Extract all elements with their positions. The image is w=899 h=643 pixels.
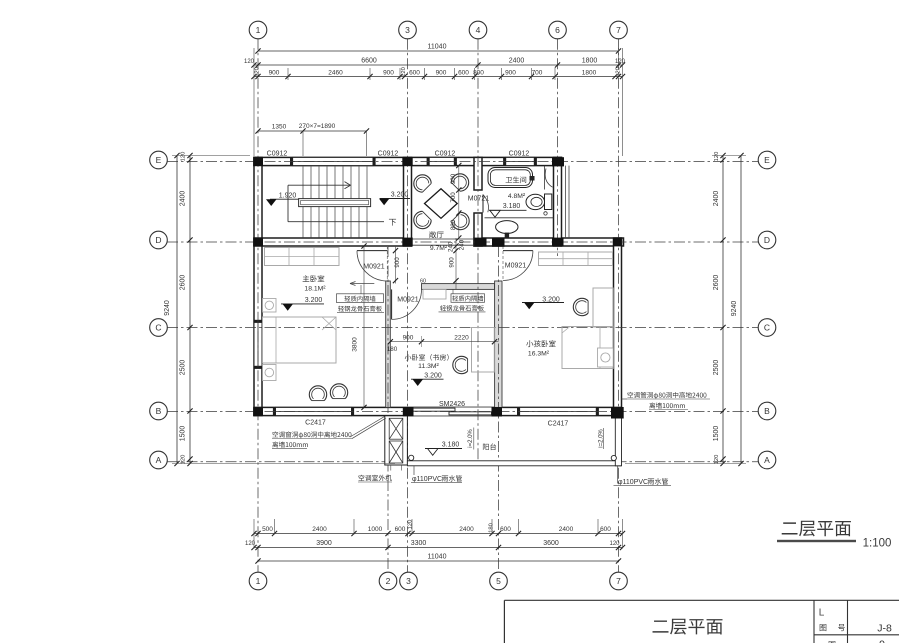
grid line A (horizontal) (167, 461, 759, 463)
svg-text:120: 120 (615, 59, 626, 65)
grid line 2 (vertical) (387, 246, 389, 572)
label balcony 阳台 (483, 443, 496, 450)
rain pipe left (409, 455, 414, 460)
svg-text:16.3M²: 16.3M² (528, 351, 550, 358)
svg-text:900: 900 (403, 334, 414, 341)
svg-text:2600: 2600 (180, 275, 187, 291)
grid circle 7 bottom (610, 572, 628, 590)
grid circle B right (758, 402, 776, 420)
svg-text:A: A (156, 455, 162, 465)
side table children bedroom (598, 348, 614, 367)
dining table (425, 189, 458, 219)
svg-text:E: E (764, 155, 770, 165)
annotation AC hole left 空调窗洞 (273, 431, 352, 438)
column grid1/rowE (253, 157, 263, 166)
svg-text:240: 240 (448, 241, 455, 252)
chair 2 master bedroom (330, 384, 347, 399)
annotation AC hole right 空调管洞 (628, 392, 707, 399)
title block partial second row (829, 641, 836, 643)
window: stair strip window (top wall) (293, 157, 373, 165)
svg-text:500: 500 (262, 526, 273, 533)
dimension extension lines right (712, 155, 746, 157)
column grid5/rowB (492, 407, 503, 417)
grid circle 7 top (610, 21, 628, 39)
bathroom floor divider (485, 217, 554, 219)
svg-text:2500: 2500 (180, 360, 187, 376)
annotation AC outdoor unit 空调室外机 (359, 475, 392, 481)
svg-text:180: 180 (489, 523, 495, 533)
svg-text:1000: 1000 (368, 526, 383, 533)
column grid7/rowB (611, 407, 624, 419)
stair handrail (299, 199, 371, 207)
grid line E (horizontal) (167, 161, 759, 163)
grid line D (horizontal) (167, 241, 759, 243)
svg-text:2400: 2400 (509, 58, 525, 65)
wall: exterior bottom (row B) (254, 407, 622, 415)
svg-text:18.1M²: 18.1M² (304, 286, 326, 293)
svg-text:M0921: M0921 (397, 297, 419, 304)
shelf small bedroom (423, 290, 446, 300)
grid circle E right (758, 151, 776, 169)
window C2417 master (row B) (276, 407, 352, 415)
grid line C (horizontal) (167, 327, 759, 329)
dimension extension lines bottom (253, 519, 255, 549)
nightstand 1 master (263, 299, 277, 313)
stair treads (303, 166, 367, 238)
column grid1/rowD (253, 238, 263, 247)
svg-text:J-8: J-8 (877, 623, 892, 635)
svg-text:11.3M²: 11.3M² (418, 363, 439, 370)
toilet (526, 194, 545, 209)
dimension top row 2 (254, 64, 623, 66)
svg-text:2500: 2500 (713, 360, 720, 376)
bed children bedroom (562, 327, 613, 369)
svg-text:L: L (819, 608, 825, 619)
wall: grid6 bathroom right wall (554, 157, 562, 246)
column grid6/rowE (552, 157, 564, 166)
svg-text:3300: 3300 (411, 540, 427, 547)
grid line 6 (vertical) (557, 39, 559, 256)
grid circle D left (150, 231, 168, 249)
column grid7/rowD (613, 238, 622, 247)
svg-text:600: 600 (500, 526, 511, 533)
svg-text:i=2.0%: i=2.0% (468, 429, 474, 448)
dining chair NE (450, 170, 473, 193)
svg-text:240: 240 (459, 239, 466, 250)
svg-text:A: A (764, 455, 770, 465)
svg-text:800: 800 (450, 219, 457, 230)
dimension small bedroom top (900/2220) (390, 341, 498, 343)
svg-text:2400: 2400 (559, 526, 574, 533)
column grid3/rowD (402, 238, 412, 247)
svg-text:900: 900 (505, 70, 516, 77)
column grid5/rowD (492, 238, 505, 247)
dimension extension lines left (172, 155, 250, 157)
svg-text:9240: 9240 (731, 301, 738, 317)
svg-text:C2417: C2417 (548, 421, 569, 428)
svg-text:φ110PVC: φ110PVC (618, 479, 648, 486)
window C0912 bathroom (top wall) (506, 157, 535, 165)
dimension stair treads (1350, 270x7=1890) (258, 130, 367, 132)
svg-text:900: 900 (269, 70, 280, 77)
chair children bedroom (573, 298, 588, 315)
svg-text:120: 120 (714, 455, 720, 465)
wall: row D right segment (grid4-grid7) (474, 238, 624, 246)
svg-text:7: 7 (616, 25, 621, 35)
window C0912 dining (top wall) (429, 157, 454, 165)
label children bedroom 小孩卧室 16.3M2 (526, 340, 555, 347)
svg-text:1800: 1800 (582, 70, 597, 77)
svg-text:120: 120 (244, 59, 255, 65)
floor drain (544, 212, 547, 215)
grid circle 4 top (469, 21, 487, 39)
dimension left outer (9240) (176, 156, 178, 464)
grid circle 2 bottom (379, 572, 397, 590)
stair direction arrow (up) (288, 184, 351, 186)
svg-text:C0912: C0912 (267, 151, 288, 158)
annotation partition master (boxed) (337, 294, 384, 303)
grid circle 5 bottom (490, 572, 508, 590)
grid circle C left (150, 319, 168, 337)
svg-text:1:100: 1:100 (863, 538, 892, 550)
dimension bottom row 1 (254, 533, 623, 535)
grid circle 3 bottom (400, 572, 418, 590)
grid circle D right (758, 231, 776, 249)
svg-text:D: D (155, 235, 161, 245)
svg-text:5: 5 (496, 576, 501, 586)
svg-text:C2417: C2417 (305, 420, 326, 427)
svg-text:2400: 2400 (312, 526, 327, 533)
label dining 敞厅 9.7M2 (429, 231, 443, 238)
partition: master bedroom east wall (grid2) (386, 281, 391, 407)
svg-text:11040: 11040 (428, 554, 447, 561)
AC shaft box with X bracing (385, 416, 408, 465)
svg-text:3.180: 3.180 (442, 442, 460, 449)
window C2417 children (row B) (520, 407, 597, 415)
title block cell 图 号 (820, 624, 827, 631)
svg-text:1800: 1800 (582, 58, 598, 65)
svg-text:φ110PVC: φ110PVC (412, 476, 442, 483)
partition: corridor south wall (422, 284, 495, 290)
column grid3/rowB (403, 407, 414, 416)
svg-text:C: C (155, 323, 161, 333)
svg-text:3.200: 3.200 (305, 297, 323, 304)
wall: row D left segment (grid1-grid3) (254, 238, 412, 246)
balcony parapet right (615, 416, 621, 466)
title block text 二层平面 (653, 619, 723, 635)
dimension right inner (722, 156, 724, 464)
svg-text:3: 3 (405, 25, 410, 35)
svg-text:600: 600 (409, 70, 420, 77)
grid circle B left (150, 402, 168, 420)
wall: grid3 stair/dining wall (404, 157, 412, 246)
svg-text:900: 900 (450, 173, 457, 184)
svg-text:3.200: 3.200 (424, 373, 442, 380)
svg-text:180: 180 (387, 346, 398, 353)
dimension 240 near grid4 (459, 239, 466, 250)
svg-text:60: 60 (420, 279, 426, 285)
dimension master 3800 vertical (363, 246, 365, 407)
wash basin (496, 221, 518, 234)
svg-text:700: 700 (532, 70, 543, 77)
title block frame (504, 599, 899, 601)
door M0921 children bedroom (503, 250, 533, 252)
dining chair NW (410, 171, 433, 194)
drawing title 二层平面 (782, 521, 851, 537)
door M0721 bathroom (482, 195, 484, 213)
nightstand 2 master (263, 365, 277, 381)
svg-text:7: 7 (616, 576, 621, 586)
svg-text:B: B (156, 406, 162, 416)
desk small bedroom (472, 328, 495, 373)
annotation partition corridor (boxed) (451, 294, 485, 303)
svg-text:M0721: M0721 (468, 196, 490, 203)
balcony parapet bottom (407, 461, 621, 466)
dimension left inner (189, 156, 191, 464)
label bathroom 卫生间 4.8M2 (506, 176, 527, 183)
chair 1 master bedroom (309, 386, 326, 401)
svg-text:900: 900 (436, 70, 447, 77)
dimension corridor left (900) (395, 246, 397, 284)
svg-text:120: 120 (401, 67, 407, 77)
floor edge line at dining (row D open side) (412, 238, 475, 240)
svg-text:3.200: 3.200 (391, 192, 409, 199)
svg-text:C: C (764, 323, 770, 333)
svg-text:1500: 1500 (713, 426, 720, 442)
rain pipe right (611, 455, 616, 460)
svg-text:2600: 2600 (713, 275, 720, 291)
dimension top row 3 (254, 76, 623, 78)
dimension bottom row 2 (254, 547, 623, 549)
bathtub (488, 168, 533, 188)
svg-text:9.7M²: 9.7M² (430, 245, 448, 252)
svg-text:120: 120 (408, 520, 414, 530)
svg-text:600: 600 (395, 526, 406, 533)
dimension corridor right (240/900) (455, 238, 457, 289)
dimension bottom row 3 (11040) (258, 560, 619, 562)
svg-text:3800: 3800 (352, 337, 359, 352)
grid line 4 (vertical) (477, 39, 479, 462)
svg-text:11040: 11040 (428, 44, 447, 51)
svg-text:120: 120 (255, 67, 261, 77)
svg-text:2220: 2220 (454, 334, 469, 341)
svg-text:1: 1 (256, 576, 261, 586)
svg-text:700: 700 (450, 192, 457, 203)
svg-text:120: 120 (181, 455, 187, 465)
wardrobe children bedroom (539, 252, 613, 266)
column grid4/rowD (475, 238, 487, 247)
svg-text:3.180: 3.180 (503, 203, 521, 210)
svg-text:3900: 3900 (316, 540, 332, 547)
svg-text:9240: 9240 (164, 300, 171, 316)
svg-text:9: 9 (879, 639, 885, 643)
partition: children room west wall (grid5) (495, 281, 502, 407)
svg-text:2460: 2460 (328, 70, 343, 77)
svg-text:4.8M²: 4.8M² (508, 193, 526, 200)
shower corner screen (544, 166, 546, 190)
grid circle E left (150, 151, 168, 169)
stair direction line (down) (287, 185, 289, 222)
chair small bedroom (453, 356, 468, 373)
svg-text:120: 120 (181, 152, 187, 162)
dining chair SW (410, 210, 433, 233)
svg-text:M0921: M0921 (363, 264, 385, 271)
wall: exterior top (row E) (254, 157, 562, 165)
grid circle A left (150, 451, 168, 469)
balcony slope label i=2.0% right (599, 429, 605, 448)
svg-text:900: 900 (383, 70, 394, 77)
wardrobe master bedroom (265, 248, 340, 266)
sliding door SM2426 (balcony) (412, 407, 492, 415)
stair down label 下 (389, 219, 396, 226)
svg-text:1500: 1500 (180, 426, 187, 442)
svg-text:C0912: C0912 (435, 151, 456, 158)
grid circle 1 top (249, 21, 267, 39)
svg-text:SM2426: SM2426 (439, 401, 465, 408)
wall: exterior left (grid 1) (254, 157, 262, 415)
bed master bedroom (263, 317, 337, 363)
svg-text:1: 1 (256, 25, 261, 35)
svg-text:1.920: 1.920 (279, 193, 297, 200)
label small bedroom 小卧室（书房） 11.3M2 (405, 354, 449, 361)
svg-text:C0912: C0912 (378, 151, 399, 158)
svg-text:2400: 2400 (180, 191, 187, 207)
grid circle 1 bottom (249, 572, 267, 590)
desk children bedroom (593, 288, 613, 327)
svg-text:900: 900 (449, 257, 456, 268)
dimension top row 1 (11040) (258, 50, 619, 52)
svg-text:600: 600 (458, 70, 469, 77)
dimension grid4 vertical (900/700/800) (458, 166, 460, 239)
svg-text:120: 120 (616, 67, 622, 77)
dining chair SE (450, 211, 473, 234)
dimension right outer (9240) (740, 156, 742, 464)
svg-text:E: E (156, 155, 162, 165)
grid line B (horizontal) (167, 411, 759, 413)
grid circle C right (758, 319, 776, 337)
svg-text:120: 120 (714, 152, 720, 162)
svg-text:6: 6 (555, 25, 560, 35)
balcony slope label i=2.0% left (468, 429, 474, 448)
svg-text:6600: 6600 (361, 58, 377, 65)
grid circle 6 top (549, 21, 567, 39)
grid line 5 (vertical) (498, 246, 500, 572)
svg-text:3600: 3600 (543, 540, 559, 547)
svg-text:D: D (764, 235, 770, 245)
wall: grid4 dining/bath wall upper (474, 157, 482, 190)
svg-text:900: 900 (394, 257, 401, 268)
label master bedroom 主卧室 18.1M2 (303, 275, 325, 282)
svg-text:270×7=1890: 270×7=1890 (299, 123, 336, 130)
pipe duct lines right of bathroom (565, 166, 567, 238)
svg-text:4: 4 (476, 25, 481, 35)
door M0921 master bedroom (357, 250, 387, 252)
column grid3/rowE (402, 157, 412, 166)
svg-text:600: 600 (600, 526, 611, 533)
svg-text:2400: 2400 (713, 191, 720, 207)
wall: exterior right (grid 7) (614, 238, 622, 416)
svg-text:M0921: M0921 (505, 263, 527, 270)
svg-text:C0912: C0912 (509, 151, 530, 158)
dimension extension lines top (253, 48, 255, 156)
column grid6/rowD (552, 238, 564, 247)
window: master bedroom west window (left wall) (254, 322, 262, 366)
svg-text:2: 2 (386, 576, 391, 586)
svg-text:2400: 2400 (459, 526, 474, 533)
wall: grid4 dining/bath wall lower (474, 213, 482, 246)
svg-text:120: 120 (609, 541, 620, 547)
column grid1/rowB (253, 407, 263, 416)
grid circle 3 top (399, 21, 417, 39)
door M0921 small bedroom (391, 289, 393, 319)
svg-text:B: B (764, 406, 770, 416)
grid line 3 (vertical) (407, 39, 409, 572)
grid circle A right (758, 451, 776, 469)
svg-text:3: 3 (406, 576, 411, 586)
grid line 7 (vertical) (618, 39, 620, 572)
svg-text:1350: 1350 (272, 124, 287, 131)
grid line 1 (vertical) (257, 39, 259, 572)
